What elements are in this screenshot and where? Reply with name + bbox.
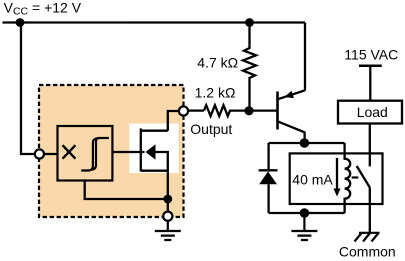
wire: +12V top supply rail [3, 21, 306, 23]
wire: left vertical from Vcc rail to sensor input [21, 23, 35, 155]
chassis ground (Common) [355, 233, 380, 242]
transistor Q1 PNP: emitter arrow (points to base) [284, 91, 294, 98]
Schmitt hysteresis symbol [92, 138, 109, 170]
relay contact: fixed terminal from top [369, 153, 371, 166]
relay mechanical link dash [352, 176, 359, 178]
ground symbol (sensor) [155, 221, 181, 240]
sensor IC dashed box (orange fill) [39, 85, 184, 217]
relay contact: bottom terminal down to chassis [369, 188, 371, 233]
svg-text:Common: Common [339, 243, 396, 259]
output FET symbol: body diode arrow [146, 144, 156, 159]
transistor Q1 PNP: base bar [276, 92, 279, 130]
output FET symbol: mid line to source leg [155, 152, 168, 171]
wire: input pin to multiplier box [44, 153, 58, 155]
wire: relay top wire (diode to coil) [269, 142, 345, 144]
diode D1 flyback: anode triangle [259, 172, 277, 185]
output FET symbol: bottom bar [141, 170, 168, 172]
wire: Load to relay contact [369, 124, 371, 154]
relay contact: moving arm [357, 166, 370, 188]
× multiplier symbol [63, 145, 76, 159]
wire: collector down to relay node [303, 132, 305, 144]
transistor Q1 PNP: emitter diagonal [278, 90, 306, 99]
svg-text:Load: Load [357, 104, 388, 120]
resistor 4.7 kΩ (vertical zigzag) + leads [243, 23, 256, 111]
svg-text:115 VAC: 115 VAC [344, 46, 398, 62]
terminal: sensor ground pin [163, 212, 172, 221]
relay coil: vertical line with 4 bumps [345, 143, 351, 213]
node: relay bottom dot [300, 208, 310, 218]
wire: base node to transistor base [253, 109, 277, 111]
node: base node dot [244, 106, 253, 115]
resistor 1.2 kΩ (horizontal zigzag) [204, 105, 250, 116]
wire: FET source down to ground pin [167, 171, 169, 212]
current arrow in coil box [336, 158, 338, 189]
wire: output pin to 1.2k resistor [188, 109, 204, 111]
terminal bar: 115 VAC feed [359, 64, 382, 67]
node: collector/coil/diode dot [300, 138, 310, 148]
transistor Q1 PNP: collector diagonal [278, 121, 305, 132]
terminal: sensor input pin [35, 149, 44, 158]
svg-text:4.7 kΩ: 4.7 kΩ [197, 54, 238, 70]
wire: FET drain up to output terminal [168, 111, 179, 131]
node: source junction dot [163, 195, 172, 204]
terminal: output pin [179, 106, 188, 115]
diode D1 flyback: cathode bar [259, 169, 278, 171]
relay box (coil chamber + contact chamber) [290, 153, 383, 204]
output FET symbol: top bar [141, 130, 168, 132]
node: junction dot at Vcc left [16, 18, 25, 27]
ground symbol (relay) [291, 213, 317, 240]
node: top rail dot at 4.7k [245, 18, 254, 27]
wire: sensor internal ground (box bottom to source node) [85, 181, 168, 200]
svg-text:40 mA: 40 mA [292, 171, 333, 187]
white highlight box around output FET [129, 124, 178, 173]
wire: 115 VAC bar down to Load [369, 66, 371, 100]
wire: Schmitt output to FET gate [112, 151, 144, 153]
svg-text:1.2 kΩ: 1.2 kΩ [195, 85, 236, 101]
output FET symbol: left bar [140, 128, 142, 171]
svg-text:Output: Output [190, 121, 232, 137]
wire: emitter up to +12V rail [304, 23, 306, 91]
Hall multiplier / Schmitt trigger box [58, 126, 113, 181]
diode D1 flyback: leads [267, 143, 269, 213]
Load box [338, 101, 402, 124]
wire: relay bottom wire [269, 212, 345, 214]
